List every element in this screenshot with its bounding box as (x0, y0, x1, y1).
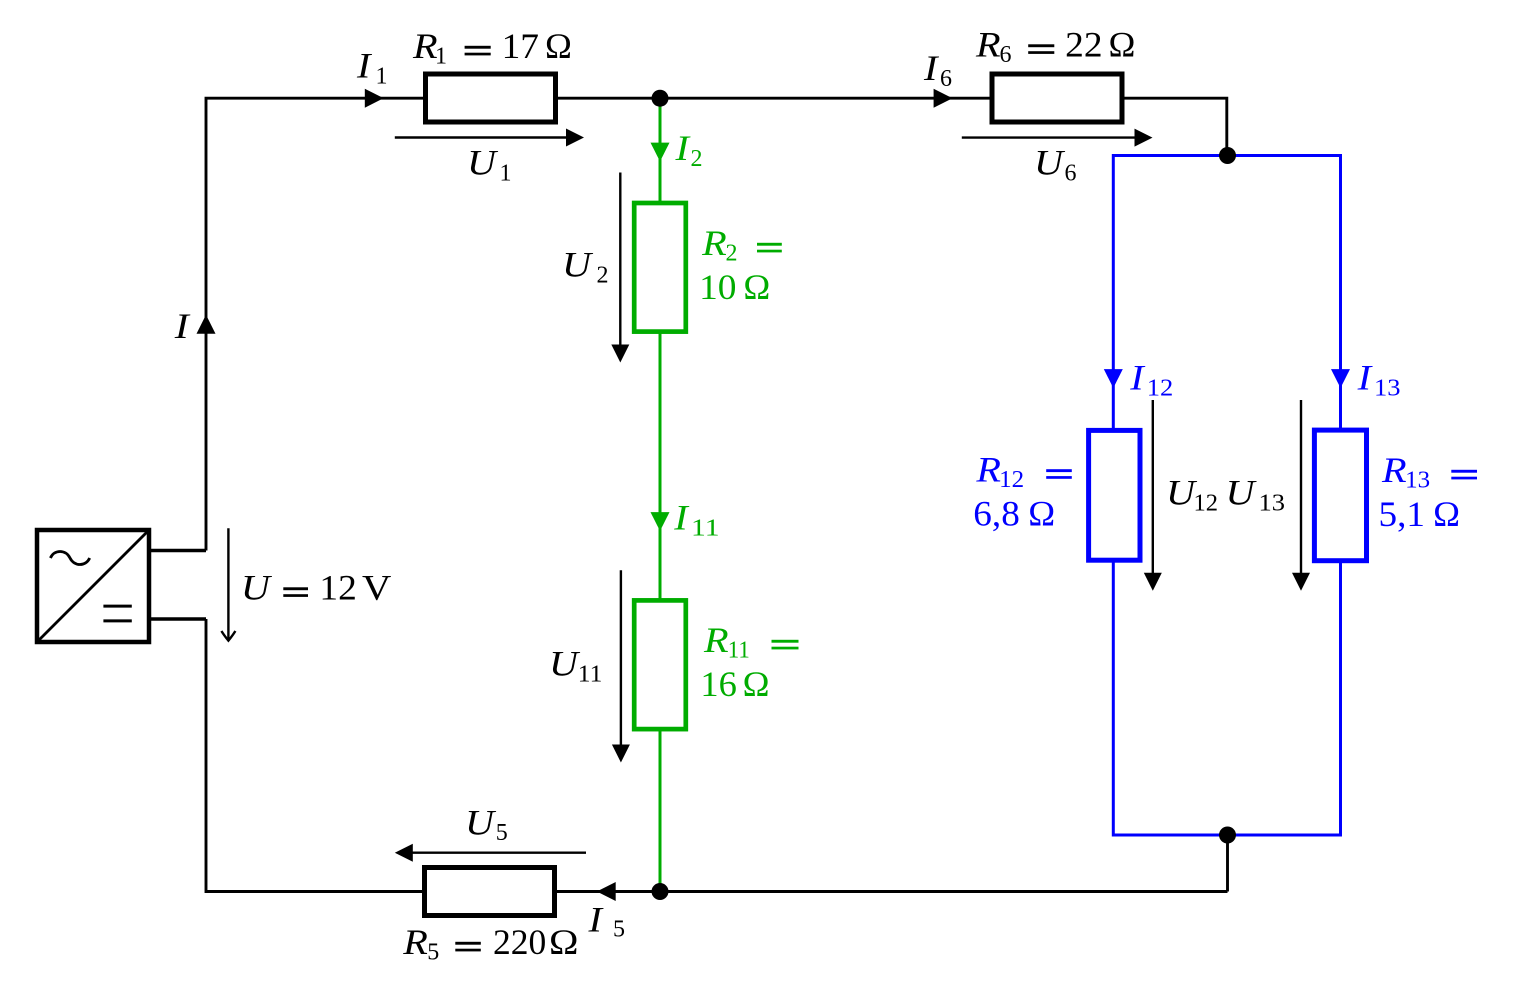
svg-text:12: 12 (999, 467, 1024, 493)
svg-text:R: R (975, 449, 1001, 489)
svg-text:5,1: 5,1 (1379, 494, 1426, 534)
svg-text:6: 6 (940, 66, 952, 92)
svg-text:Ω: Ω (743, 664, 770, 704)
svg-text:11: 11 (691, 516, 720, 542)
svg-text:R: R (402, 922, 428, 962)
svg-text:I: I (674, 128, 691, 168)
svg-text:10: 10 (699, 267, 736, 307)
svg-text:U: U (1034, 143, 1065, 183)
svg-text:5: 5 (496, 820, 508, 846)
svg-text:I: I (587, 900, 604, 940)
svg-text:I: I (1356, 358, 1373, 398)
svg-text:13: 13 (1259, 490, 1286, 516)
svg-text:5: 5 (613, 917, 625, 943)
svg-text:17: 17 (502, 26, 539, 66)
svg-text:5: 5 (427, 940, 439, 966)
svg-text:12: 12 (319, 568, 356, 608)
svg-text:U: U (465, 803, 496, 843)
svg-text:I: I (356, 46, 373, 86)
svg-text:U: U (241, 568, 272, 608)
svg-text:Ω: Ω (1109, 25, 1136, 65)
svg-text:6: 6 (1000, 42, 1012, 68)
svg-text:2: 2 (597, 263, 609, 289)
svg-text:Ω: Ω (549, 922, 579, 962)
svg-text:U: U (467, 143, 498, 183)
svg-text:13: 13 (1405, 468, 1430, 494)
svg-text:13: 13 (1374, 376, 1401, 402)
svg-text:I: I (174, 306, 192, 346)
svg-text:2: 2 (726, 241, 738, 267)
svg-text:12: 12 (1194, 490, 1219, 516)
svg-text:6: 6 (1065, 161, 1077, 187)
svg-text:V: V (362, 568, 391, 608)
svg-text:1: 1 (500, 161, 512, 187)
svg-text:U: U (562, 245, 593, 285)
svg-text:16: 16 (700, 664, 737, 704)
svg-text:220: 220 (493, 922, 546, 962)
svg-text:R: R (1381, 450, 1407, 490)
svg-text:I: I (923, 48, 940, 88)
svg-text:U: U (1226, 472, 1257, 512)
svg-text:R: R (701, 223, 727, 263)
svg-text:I: I (673, 498, 690, 538)
svg-text:Ω: Ω (1433, 494, 1460, 534)
svg-text:11: 11 (728, 638, 750, 664)
svg-text:R: R (703, 620, 729, 660)
svg-text:22: 22 (1065, 25, 1102, 65)
svg-text:6,8: 6,8 (973, 494, 1020, 534)
svg-text:2: 2 (691, 146, 703, 172)
svg-text:U: U (549, 644, 580, 684)
svg-text:1: 1 (435, 44, 447, 70)
svg-text:R: R (412, 26, 438, 66)
svg-text:R: R (975, 25, 1001, 65)
svg-text:Ω: Ω (545, 26, 572, 66)
svg-text:11: 11 (578, 662, 603, 688)
svg-text:12: 12 (1147, 376, 1174, 402)
svg-text:Ω: Ω (1028, 494, 1055, 534)
svg-text:I: I (1129, 358, 1146, 398)
svg-text:Ω: Ω (743, 267, 770, 307)
svg-text:1: 1 (376, 64, 388, 90)
